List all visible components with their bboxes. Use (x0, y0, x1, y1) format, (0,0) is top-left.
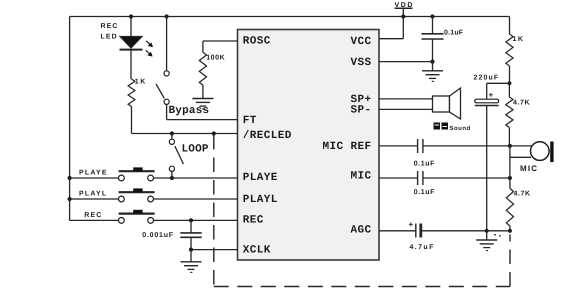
svg-text:MIC: MIC (350, 171, 371, 183)
svg-text:VDD: VDD (395, 2, 415, 9)
svg-text:4.7K: 4.7K (513, 100, 530, 107)
svg-text:1K: 1K (135, 79, 147, 86)
svg-text:SP-: SP- (350, 105, 371, 117)
svg-text:LOOP: LOOP (182, 144, 209, 156)
svg-text:0.1uF: 0.1uF (414, 189, 435, 196)
svg-text:VCC: VCC (350, 36, 371, 48)
svg-text:0.001uF: 0.001uF (142, 232, 174, 239)
svg-text:MIC: MIC (520, 164, 538, 173)
svg-text:+: + (409, 220, 414, 229)
svg-text:Sound: Sound (450, 125, 471, 132)
svg-text:PLAYL: PLAYL (243, 194, 278, 206)
svg-text:REC: REC (84, 212, 102, 219)
svg-text:0.1uF: 0.1uF (414, 161, 435, 168)
svg-text:100K: 100K (206, 55, 225, 62)
svg-text:220uF: 220uF (474, 75, 500, 82)
svg-text:MIC REF: MIC REF (322, 141, 371, 153)
svg-text:REC: REC (243, 215, 264, 227)
svg-text:0.1uF: 0.1uF (444, 30, 464, 37)
svg-text:+: + (489, 91, 494, 100)
svg-text:4.7uF: 4.7uF (410, 244, 435, 251)
svg-text:AGC: AGC (350, 225, 371, 237)
svg-text:LED: LED (101, 33, 118, 40)
svg-text:REC: REC (101, 23, 119, 30)
svg-text:ROSC: ROSC (243, 36, 271, 48)
svg-text:1K: 1K (513, 36, 525, 43)
svg-text:XCLK: XCLK (243, 245, 271, 257)
svg-text:/RECLED: /RECLED (243, 130, 292, 142)
svg-text:Bypass: Bypass (169, 105, 210, 117)
svg-text:PLAYE: PLAYE (243, 172, 278, 184)
svg-text:4.7K: 4.7K (514, 191, 531, 198)
svg-text:PLAYL: PLAYL (79, 191, 107, 198)
svg-text:FT: FT (243, 115, 257, 127)
svg-text:VSS: VSS (350, 57, 371, 69)
svg-text:PLAYE: PLAYE (79, 170, 108, 177)
